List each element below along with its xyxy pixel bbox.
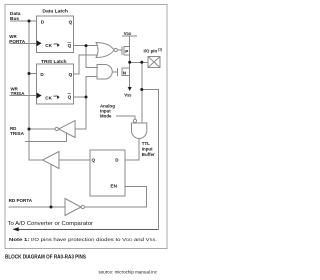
wire TRIS Qbar down to RD TRISA buffer bbox=[75, 97, 86, 129]
svg-text:Q: Q bbox=[69, 20, 73, 25]
wire RD TRISA enable bbox=[25, 133, 67, 142]
wire analog input mode bbox=[116, 116, 135, 119]
node data Q split bbox=[85, 44, 88, 47]
wire RD PORTA bbox=[9, 206, 65, 208]
wire TRIS D input bbox=[29, 73, 37, 75]
A/D arrowhead bbox=[12, 227, 18, 231]
clock wedge TRIS latch bbox=[37, 93, 42, 99]
wire N drain source bbox=[129, 62, 131, 87]
VDD rail bbox=[122, 35, 137, 37]
svg-text:Note 1: I/O pins have protecti: Note 1: I/O pins have protection diodes … bbox=[9, 237, 157, 242]
transistor P body box bbox=[124, 47, 130, 55]
node RD PORTA split bbox=[50, 206, 53, 209]
svg-text:TTL: TTL bbox=[142, 141, 150, 146]
svg-text:Q: Q bbox=[68, 43, 72, 48]
wire RD PORTA buffer to input latch Q bbox=[59, 159, 90, 161]
svg-text:BLOCK DIAGRAM OF RA0-RA3 PINS: BLOCK DIAGRAM OF RA0-RA3 PINS bbox=[5, 255, 87, 261]
RD PORTA buffer U7 bbox=[43, 152, 59, 169]
transistor N body box bbox=[122, 68, 130, 76]
svg-text:EN: EN bbox=[111, 184, 118, 189]
wire data latch Q to NOR gate bbox=[74, 45, 98, 47]
wire TRIS Qbar to AND gate bbox=[86, 77, 98, 97]
wire to A/D converter bbox=[18, 228, 159, 230]
node data bus split bbox=[28, 20, 31, 23]
svg-text:PORTA: PORTA bbox=[9, 39, 26, 44]
wire branch to A/D rail bbox=[142, 90, 159, 230]
wire AND to N gate bbox=[112, 71, 117, 73]
svg-text:CK: CK bbox=[45, 96, 52, 101]
svg-text:To A/D Converter or Comparator: To A/D Converter or Comparator bbox=[8, 221, 94, 227]
data latch U1 box bbox=[37, 16, 74, 52]
NOR gate bubble bbox=[114, 48, 117, 51]
wire inverter to EN bbox=[85, 186, 147, 207]
wire bus to RD TRISA buffer bbox=[29, 128, 55, 130]
VSS arrowhead bbox=[128, 87, 132, 91]
svg-text:Mode: Mode bbox=[100, 113, 112, 118]
wire WR PORTA bbox=[9, 42, 36, 44]
svg-text:Data Latch: Data Latch bbox=[42, 9, 68, 15]
RD TRISA buffer U6 bbox=[59, 121, 76, 138]
svg-text:(1): (1) bbox=[158, 48, 162, 52]
svg-text:TRISA: TRISA bbox=[11, 91, 26, 96]
AND gate U4 bbox=[97, 65, 112, 80]
wire TRIS latch Qbar bbox=[74, 96, 87, 98]
wire TTL buffer output to latch D bbox=[125, 139, 139, 161]
wire P drain to pin bbox=[129, 36, 131, 63]
wire data latch Q branch to AND gate bbox=[86, 46, 98, 68]
node pin TTL branch bbox=[140, 61, 143, 64]
wire pin rail horizontal bbox=[130, 61, 148, 63]
svg-text:RD PORTA: RD PORTA bbox=[9, 198, 33, 203]
svg-text:VSS: VSS bbox=[124, 93, 131, 98]
svg-text:TRISA: TRISA bbox=[10, 131, 25, 136]
I/O pin pad box bbox=[148, 57, 160, 68]
transistor N gate bar bbox=[117, 68, 119, 76]
clock glyph TRIS latch bbox=[54, 95, 58, 97]
wire WR TRISA bbox=[9, 94, 36, 96]
clock glyph data latch bbox=[54, 43, 60, 99]
wire data bus horizontal bbox=[10, 20, 37, 22]
svg-text:Q: Q bbox=[69, 72, 73, 77]
svg-text:Buffer: Buffer bbox=[142, 152, 155, 157]
wire data bus vertical bbox=[29, 21, 43, 160]
svg-text:source: microchip manual.inc: source: microchip manual.inc bbox=[99, 269, 158, 274]
TTL input buffer gate U5 bbox=[132, 123, 147, 138]
node A/D branch bbox=[140, 88, 143, 91]
RD PORTA inverter U9 bbox=[65, 199, 81, 216]
svg-text:Input: Input bbox=[142, 147, 153, 152]
wire pin down to TTL buffer bbox=[141, 62, 143, 123]
wire TRIS latch Q to NOR gate bbox=[74, 55, 98, 74]
svg-text:Q: Q bbox=[68, 95, 72, 100]
svg-text:Q: Q bbox=[92, 158, 96, 163]
node TRIS D bbox=[28, 72, 31, 75]
input latch U8 box bbox=[90, 150, 125, 196]
node P drain pin bbox=[128, 61, 131, 64]
RD TRISA buffer bubble bbox=[55, 127, 58, 130]
NOR gate U3 bbox=[96, 43, 114, 58]
I/O pin pad X bbox=[148, 57, 160, 68]
TRIS latch U2 box bbox=[37, 64, 74, 104]
svg-text:P: P bbox=[125, 49, 128, 54]
TTL buffer input bubble bbox=[133, 119, 136, 122]
wire RD PORTA enable bbox=[50, 164, 52, 207]
svg-text:Bus: Bus bbox=[10, 16, 19, 22]
border frame bbox=[5, 5, 167, 249]
text labels bbox=[10, 9, 68, 65]
svg-text:VDD: VDD bbox=[124, 31, 132, 36]
RD PORTA inverter bubble bbox=[81, 205, 84, 208]
node RD TRISA bus bbox=[28, 128, 31, 131]
wire NOR to P gate bbox=[117, 49, 122, 51]
node TRIS Qbar split bbox=[85, 96, 88, 99]
svg-text:I/O pin: I/O pin bbox=[144, 49, 158, 54]
svg-text:TRIS Latch: TRIS Latch bbox=[41, 59, 67, 65]
clock wedge data latch bbox=[37, 40, 42, 46]
transistor P gate bar bbox=[121, 47, 123, 56]
svg-text:CK: CK bbox=[45, 43, 52, 48]
